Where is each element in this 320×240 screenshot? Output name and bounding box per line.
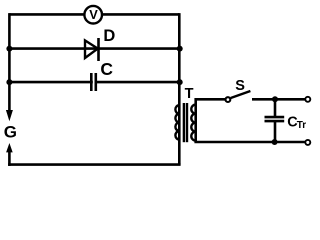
- switch S contact circle: [226, 97, 231, 102]
- transformer T secondary coil: [191, 105, 195, 141]
- capacitor C right plate: [95, 73, 98, 91]
- terminal top circle: [305, 97, 310, 102]
- switch S blade: [231, 91, 251, 98]
- voltmeter V1 circle: [84, 6, 102, 24]
- wire left vertical (top corner down to spark gap arrow): [8, 13, 11, 111]
- wire right vertical (left loop right side): [178, 13, 181, 165]
- svg-text:Tr: Tr: [297, 120, 307, 131]
- node junction dot left wire2: [6, 46, 12, 52]
- wire top (left loop top side): [9, 13, 179, 16]
- capacitor CTr bottom plate: [265, 120, 285, 123]
- node junction dot top capacitor CTr: [272, 96, 278, 102]
- svg-text:T: T: [185, 86, 194, 102]
- capacitor CTr top plate: [265, 116, 285, 119]
- spark gap up arrowhead: [6, 143, 13, 152]
- spark gap down arrowhead: [6, 110, 13, 121]
- node junction dot bottom capacitor CTr: [272, 139, 278, 145]
- capacitor CTr bottom lead: [274, 121, 277, 142]
- svg-text:V: V: [89, 7, 98, 22]
- capacitor CTr top lead: [274, 99, 277, 117]
- capacitor C left plate: [90, 73, 93, 91]
- node junction dot left wire3: [6, 79, 12, 85]
- node junction dot right wire2: [177, 46, 183, 52]
- wire 2 horizontal (diode branch): [9, 47, 179, 50]
- diode D triangle: [85, 40, 98, 58]
- diode D cathode bar: [97, 38, 100, 61]
- svg-text:D: D: [103, 27, 115, 45]
- node junction dot right wire3: [177, 79, 183, 85]
- transformer T primary coil: [175, 105, 179, 139]
- terminal bottom circle: [305, 140, 310, 145]
- wire bottom (left loop bottom side): [8, 163, 181, 166]
- wire left lower vertical (up arrow to bottom wire): [8, 152, 11, 166]
- capacitor C gap mask: [93, 79, 95, 85]
- wire secondary top right segment: [252, 98, 305, 101]
- wire secondary loop left edge and bottom wire: [196, 99, 305, 142]
- svg-text:C: C: [100, 59, 113, 79]
- svg-text:S: S: [235, 78, 245, 94]
- transformer T core line right: [186, 103, 188, 142]
- svg-text:G: G: [4, 122, 17, 141]
- transformer T core line left: [183, 103, 185, 142]
- wire 3 horizontal (capacitor branch): [9, 81, 179, 84]
